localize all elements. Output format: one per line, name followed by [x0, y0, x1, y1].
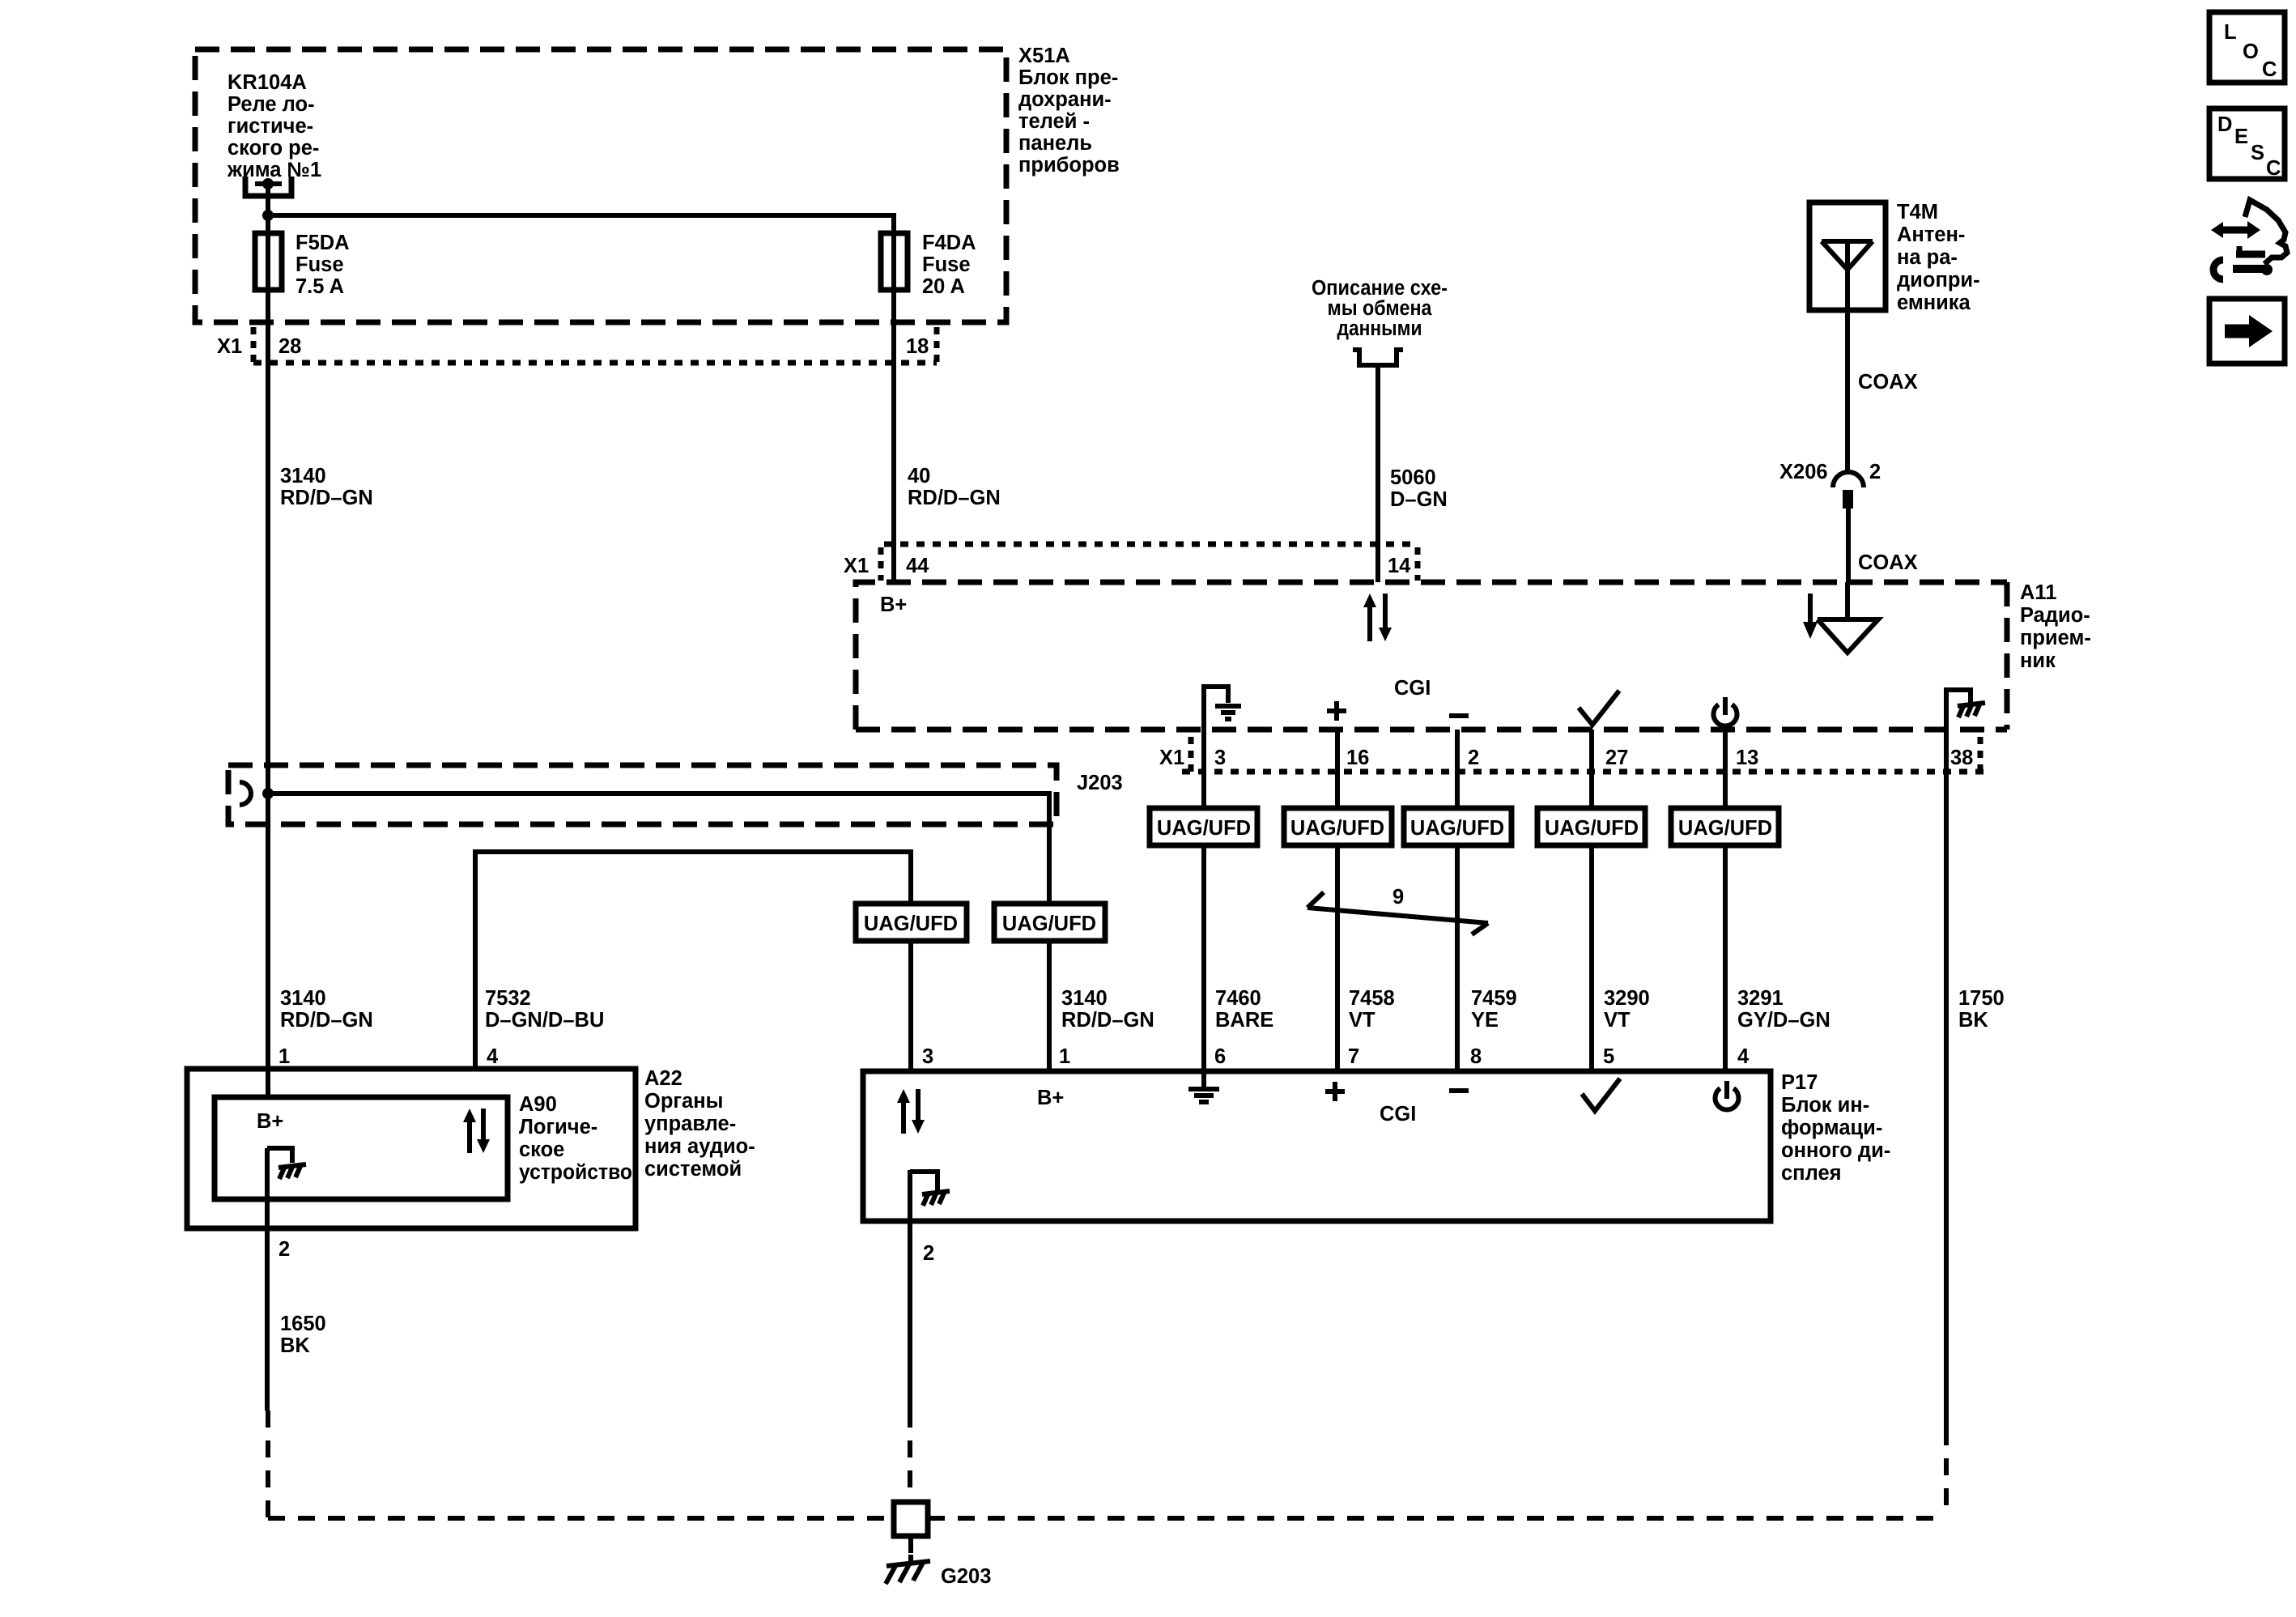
wire relay to junction [266, 184, 270, 235]
svg-text:G203: G203 [941, 1565, 991, 1588]
ground G203 [886, 1555, 991, 1588]
svg-text:20 A: 20 A [922, 275, 965, 298]
wire 7458 VT [1337, 845, 1395, 1071]
svg-text:X1: X1 [217, 335, 242, 358]
svg-text:8: 8 [1470, 1045, 1482, 1068]
svg-text:F5DA: F5DA [296, 232, 350, 254]
svg-text:7458: 7458 [1349, 987, 1395, 1010]
wire A22 pin1 to A90 B+ [266, 1069, 270, 1100]
svg-text:D: D [2217, 113, 2232, 136]
label F4DA [922, 232, 976, 298]
svg-text:7460: 7460 [1215, 987, 1261, 1010]
wire dashed to G203 [908, 1536, 913, 1560]
svg-text:системой: системой [644, 1158, 742, 1181]
wire 3290 VT [1592, 845, 1650, 1071]
svg-text:панель: панель [1018, 132, 1092, 155]
svg-text:ник: ник [2020, 649, 2056, 672]
splice UAG/UFD 4 [1537, 808, 1645, 845]
icon arrow box [2209, 299, 2285, 364]
svg-text:Радио-: Радио- [2020, 604, 2090, 627]
svg-text:BK: BK [1958, 1009, 1988, 1032]
label P17 [1781, 1071, 1890, 1185]
svg-text:X1: X1 [844, 555, 869, 577]
wire dashed ground run right [928, 1516, 1946, 1521]
wire 1750 BK [1946, 690, 2005, 1518]
svg-text:B+: B+ [1037, 1087, 1064, 1109]
svg-text:на ра-: на ра- [1897, 246, 1958, 269]
label wire 7532 D-GN/D-BU [485, 987, 604, 1068]
svg-text:7: 7 [1348, 1045, 1359, 1068]
svg-text:данными: данными [1337, 317, 1422, 340]
svg-text:7.5 A: 7.5 A [296, 275, 344, 298]
svg-text:A22: A22 [644, 1067, 682, 1090]
relay KR104A contact symbol [245, 177, 291, 196]
svg-text:9: 9 [1392, 886, 1404, 908]
svg-text:мы обмена: мы обмена [1328, 297, 1433, 320]
wire P17 pin2 down [910, 1221, 934, 1502]
svg-text:B+: B+ [257, 1110, 283, 1133]
svg-text:O: O [2243, 40, 2259, 63]
svg-text:UAG/UFD: UAG/UFD [1290, 817, 1384, 840]
svg-text:14: 14 [1388, 555, 1411, 577]
minus symbol pin8 P17 [1449, 1088, 1469, 1093]
splice UAG/UFD 5 [1671, 808, 1779, 845]
svg-text:KR104A: KR104A [227, 71, 307, 94]
svg-text:F4DA: F4DA [922, 232, 976, 254]
svg-text:RD/D–GN: RD/D–GN [1061, 1009, 1154, 1032]
splice UAG/UFD 1 [1150, 808, 1257, 845]
wire A22 pin2 1650 BK [267, 1148, 326, 1518]
label A11 [2020, 581, 2091, 672]
label T4M [1897, 201, 1980, 314]
label KR104A [227, 71, 321, 181]
svg-text:жима №1: жима №1 [227, 159, 321, 181]
wire 3140 RD/D-GN to P17 pin1 [1049, 941, 1154, 1071]
svg-text:COAX: COAX [1858, 371, 1918, 394]
radio A11 dashed box [856, 582, 2007, 730]
splice arc in J203 [240, 782, 251, 805]
svg-text:2: 2 [278, 1238, 290, 1261]
check symbol pin5 P17 [1582, 1079, 1620, 1111]
ground splice square [894, 1502, 928, 1536]
wire pin13 [1723, 730, 1728, 808]
svg-text:RD/D–GN: RD/D–GN [280, 1009, 373, 1032]
svg-text:дохрани-: дохрани- [1018, 88, 1112, 111]
svg-text:3140: 3140 [280, 987, 326, 1010]
svg-text:ния аудио-: ния аудио- [644, 1135, 755, 1158]
svg-text:2: 2 [1869, 461, 1881, 483]
icon double arrow [2211, 221, 2260, 239]
svg-text:A11: A11 [2020, 581, 2056, 604]
ground symbol pin3 A11 [1204, 687, 1241, 730]
svg-text:телей -: телей - [1018, 110, 1090, 133]
svg-text:D–GN: D–GN [1390, 488, 1448, 511]
wire junction to F4DA [268, 215, 894, 235]
svg-text:Блок пре-: Блок пре- [1018, 66, 1118, 89]
svg-text:X51A: X51A [1018, 45, 1070, 67]
svg-text:UAG/UFD: UAG/UFD [1545, 817, 1639, 840]
svg-text:2: 2 [923, 1242, 934, 1265]
node B+ A90 [257, 1110, 283, 1133]
svg-text:UAG/UFD: UAG/UFD [1002, 913, 1096, 935]
wire A22 pin4 riser [475, 852, 911, 1069]
svg-text:Т4М: Т4М [1897, 201, 1938, 223]
logic unit A90 box [215, 1097, 508, 1199]
label A22 [644, 1067, 755, 1181]
svg-text:B+: B+ [880, 594, 907, 616]
wire 3140 pin28 down to J203 [266, 290, 270, 1069]
svg-text:UAG/UFD: UAG/UFD [864, 913, 958, 935]
svg-text:ское: ское [519, 1138, 564, 1161]
plus symbol pin16 A11 [1327, 701, 1346, 721]
serial data arrows P17 [897, 1089, 925, 1134]
svg-text:UAG/UFD: UAG/UFD [1157, 817, 1251, 840]
splice UAG/UFD mid-right [994, 904, 1105, 941]
svg-text:Реле ло-: Реле ло- [227, 93, 315, 116]
junction J203 dashed box [228, 765, 1123, 824]
label A90 [519, 1093, 632, 1184]
svg-text:3291: 3291 [1737, 987, 1784, 1010]
svg-text:C: C [2262, 58, 2277, 81]
wire pin2 [1455, 730, 1460, 808]
svg-text:A90: A90 [519, 1093, 557, 1116]
ground symbol pin6 P17 [1188, 1071, 1219, 1102]
splice UAG/UFD mid-left [856, 904, 967, 941]
svg-text:J203: J203 [1077, 772, 1123, 794]
fuse F5DA [255, 233, 282, 290]
connector X1 row of X51A [217, 327, 937, 363]
check symbol pin27 A11 [1579, 691, 1619, 725]
label X51A [1018, 45, 1120, 177]
chassis ground inside A90 [267, 1148, 306, 1179]
svg-text:BARE: BARE [1215, 1009, 1273, 1032]
svg-text:GY/D–GN: GY/D–GN [1737, 1009, 1830, 1032]
icon LOC box [2209, 12, 2285, 83]
svg-text:1650: 1650 [280, 1313, 326, 1335]
svg-text:онного ди-: онного ди- [1781, 1139, 1890, 1162]
power symbol pin13 A11 [1714, 697, 1737, 726]
splice UAG/UFD 2 [1284, 808, 1392, 845]
svg-text:1: 1 [278, 1045, 290, 1068]
svg-text:формаци-: формаци- [1781, 1117, 1882, 1139]
antenna input symbol inside A11 [1803, 582, 1878, 653]
svg-text:ского ре-: ского ре- [227, 137, 319, 160]
svg-text:38: 38 [1950, 747, 1973, 769]
serial data arrows pin14 [1363, 594, 1392, 641]
svg-text:Блок ин-: Блок ин- [1781, 1094, 1869, 1117]
svg-text:CGI: CGI [1380, 1103, 1416, 1126]
chassis ground pin38 A11 [1946, 690, 1985, 730]
svg-text:D–GN/D–BU: D–GN/D–BU [485, 1009, 604, 1032]
svg-text:2: 2 [1468, 747, 1479, 769]
connector X1 row of A11 pins 3..38 [1159, 737, 1988, 772]
node B+ P17 [1037, 1087, 1064, 1109]
power symbol pin4 P17 [1716, 1081, 1739, 1109]
svg-text:COAX: COAX [1858, 551, 1918, 574]
node junction dot [262, 210, 274, 221]
svg-text:RD/D–GN: RD/D–GN [280, 487, 373, 509]
wire 40 pin18 down to A11 [891, 290, 896, 582]
fuse block X51A dashed box [195, 49, 1006, 322]
label wire 3140 RD/D-GN lower left [278, 987, 373, 1068]
svg-text:7532: 7532 [485, 987, 531, 1010]
connector X1 row of A11 pins 44,14 [844, 544, 1418, 581]
svg-text:X206: X206 [1779, 461, 1828, 483]
svg-text:VT: VT [1604, 1009, 1631, 1032]
svg-text:Антен-: Антен- [1897, 223, 1965, 246]
svg-text:Fuse: Fuse [296, 253, 344, 276]
chassis ground pin2 P17 [910, 1170, 950, 1221]
label wire 3140 RD/D-GN upper [280, 465, 373, 509]
svg-text:UAG/UFD: UAG/UFD [1410, 817, 1504, 840]
label F5DA [296, 232, 350, 298]
wire COAX lower [1848, 509, 1918, 582]
svg-text:сплея: сплея [1781, 1162, 1842, 1185]
svg-text:устройство: устройство [519, 1161, 632, 1184]
wire J203 branch to UAG/UFD right [268, 794, 1049, 904]
svg-text:3290: 3290 [1604, 987, 1650, 1010]
label CGI P17 [1380, 1103, 1416, 1126]
svg-text:3140: 3140 [280, 465, 326, 487]
wire mid-left to P17 pin3 [911, 941, 933, 1071]
svg-text:L: L [2224, 21, 2237, 44]
connector X206 pin 2 [1779, 461, 1881, 509]
svg-text:4: 4 [487, 1045, 499, 1068]
svg-text:емника: емника [1897, 291, 1971, 314]
wire 5060 D-GN [1378, 365, 1448, 582]
svg-text:UAG/UFD: UAG/UFD [1678, 817, 1772, 840]
svg-text:13: 13 [1736, 747, 1758, 769]
node junction dot J203 [262, 788, 274, 799]
label CGI inside A11 [1394, 677, 1431, 700]
antenna T4M [1809, 202, 1886, 310]
svg-text:приборов: приборов [1018, 154, 1120, 177]
svg-text:Логиче-: Логиче- [519, 1116, 597, 1138]
svg-text:CGI: CGI [1394, 677, 1431, 700]
svg-text:4: 4 [1737, 1045, 1750, 1068]
svg-text:16: 16 [1346, 747, 1369, 769]
svg-text:3: 3 [922, 1045, 933, 1068]
svg-text:28: 28 [278, 335, 301, 358]
splice UAG/UFD 3 [1404, 808, 1512, 845]
svg-text:BK: BK [280, 1334, 310, 1357]
svg-text:7459: 7459 [1471, 987, 1517, 1010]
svg-text:27: 27 [1605, 747, 1628, 769]
svg-text:Описание схе-: Описание схе- [1312, 277, 1448, 300]
wire COAX upper [1847, 310, 1918, 472]
svg-text:3: 3 [1214, 747, 1226, 769]
svg-text:Fuse: Fuse [922, 253, 971, 276]
label wire 40 RD/D-GN [908, 465, 1001, 509]
svg-text:44: 44 [906, 555, 929, 577]
svg-text:гистиче-: гистиче- [227, 115, 313, 138]
svg-text:5: 5 [1603, 1045, 1614, 1068]
svg-text:3140: 3140 [1061, 987, 1108, 1010]
svg-text:E: E [2234, 126, 2248, 148]
svg-text:управле-: управле- [644, 1113, 736, 1135]
info display P17 box [863, 1071, 1771, 1221]
twisted pair callout 9 [1307, 886, 1488, 934]
wire dashed ground run left [268, 1516, 894, 1521]
svg-text:18: 18 [906, 335, 929, 358]
svg-text:YE: YE [1471, 1009, 1499, 1032]
svg-text:P17: P17 [1781, 1071, 1818, 1094]
svg-text:1: 1 [1059, 1045, 1070, 1068]
icon wrench [2213, 260, 2273, 279]
wire 7459 YE [1457, 845, 1517, 1071]
svg-text:Органы: Органы [644, 1090, 723, 1113]
wire pin27 [1589, 730, 1594, 808]
node B+ pin44 [880, 594, 907, 616]
svg-text:1750: 1750 [1958, 987, 2005, 1010]
svg-text:S: S [2251, 142, 2264, 164]
icon car silhouette [2236, 200, 2287, 264]
wire 3291 GY/D-GN [1725, 845, 1830, 1071]
fuse F4DA [881, 233, 908, 290]
wire 7460 BARE [1204, 845, 1273, 1071]
svg-text:40: 40 [908, 465, 930, 487]
svg-text:6: 6 [1214, 1045, 1226, 1068]
svg-text:VT: VT [1349, 1009, 1375, 1032]
svg-text:прием-: прием- [2020, 627, 2091, 649]
serial data arrows A90 [463, 1108, 490, 1153]
svg-text:C: C [2266, 157, 2281, 180]
svg-text:RD/D–GN: RD/D–GN [908, 487, 1001, 509]
minus symbol pin2 A11 [1449, 713, 1469, 718]
node data link description [1312, 277, 1448, 365]
audio controls A22 box [187, 1069, 636, 1228]
svg-text:X1: X1 [1159, 747, 1184, 769]
wire pin3 to splice box [1201, 687, 1206, 808]
icon DESC box [2209, 109, 2285, 180]
svg-text:5060: 5060 [1390, 466, 1436, 489]
plus symbol pin7 P17 [1325, 1082, 1345, 1101]
wire pin16 [1335, 730, 1340, 808]
svg-text:диопри-: диопри- [1897, 269, 1980, 291]
